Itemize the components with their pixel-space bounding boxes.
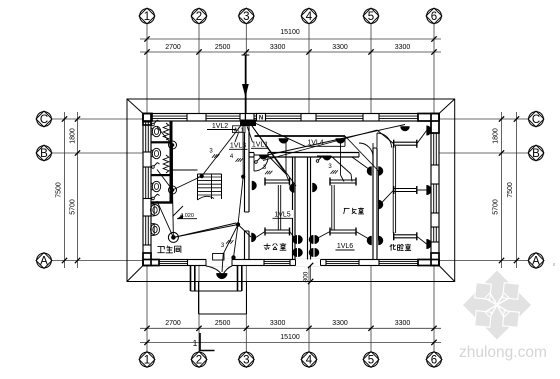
svg-text:4: 4 (306, 11, 313, 23)
svg-text:5: 5 (368, 355, 374, 367)
svg-text:800: 800 (302, 271, 309, 282)
svg-text:A: A (40, 256, 48, 268)
svg-text:5: 5 (368, 11, 374, 23)
svg-text:1800: 1800 (70, 128, 77, 144)
svg-text:2700: 2700 (165, 320, 181, 327)
svg-text:5700: 5700 (493, 199, 500, 215)
svg-text:B: B (532, 148, 540, 160)
svg-text:5700: 5700 (70, 199, 77, 215)
svg-text:1VL2: 1VL2 (212, 123, 228, 130)
svg-text:2500: 2500 (215, 44, 231, 51)
svg-text:7500: 7500 (56, 182, 63, 198)
svg-text:3300: 3300 (332, 320, 348, 327)
svg-text:6: 6 (431, 355, 437, 367)
svg-text:N: N (259, 116, 263, 122)
svg-text:B: B (40, 148, 48, 160)
svg-text:C: C (532, 114, 540, 126)
svg-text:1: 1 (193, 338, 198, 348)
svg-text:A: A (532, 256, 540, 268)
svg-text:15100: 15100 (280, 29, 300, 36)
svg-text:1: 1 (144, 11, 150, 23)
svg-text:3300: 3300 (332, 44, 348, 51)
svg-text:7500: 7500 (507, 182, 514, 198)
svg-text:1VL6: 1VL6 (337, 243, 353, 250)
svg-text:2: 2 (196, 11, 202, 23)
svg-text:6: 6 (431, 11, 437, 23)
svg-text:3300: 3300 (395, 320, 411, 327)
svg-text:4: 4 (306, 355, 313, 367)
svg-text:3300: 3300 (270, 320, 286, 327)
svg-text:C: C (40, 114, 48, 126)
svg-text:zhulong.com: zhulong.com (459, 344, 547, 361)
svg-text:2500: 2500 (215, 320, 231, 327)
svg-text:3: 3 (243, 11, 249, 23)
svg-text:15100: 15100 (280, 334, 300, 341)
svg-text:3300: 3300 (270, 44, 286, 51)
svg-text:1800: 1800 (493, 128, 500, 144)
svg-text:2700: 2700 (165, 44, 181, 51)
svg-text:1: 1 (144, 355, 150, 367)
svg-text:1VL3: 1VL3 (230, 143, 246, 150)
svg-text:2: 2 (196, 355, 202, 367)
svg-text:3: 3 (243, 355, 249, 367)
svg-text:3300: 3300 (395, 44, 411, 51)
svg-text:1VL5: 1VL5 (274, 212, 290, 219)
